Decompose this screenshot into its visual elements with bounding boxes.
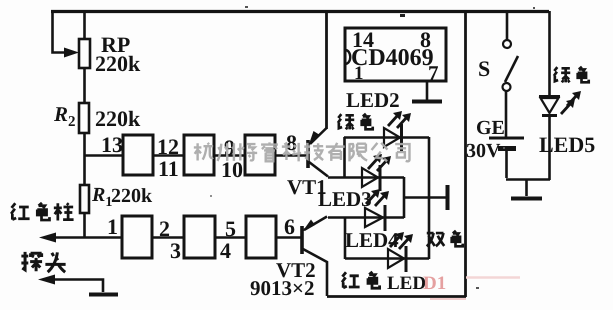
scan speckles (210, 6, 535, 289)
transistor VT2 emitter (304, 217, 327, 231)
svg-text:S: S (478, 56, 490, 81)
wire V2 joining LED3 row to LED1 row (344, 217, 347, 259)
LED5 (539, 91, 581, 116)
svg-text:220k: 220k (95, 51, 141, 76)
potentiometer RP body (79, 39, 90, 68)
svg-text:R2: R2 (53, 102, 76, 130)
transistor VT1 base bar (306, 140, 310, 168)
svg-text:220k: 220k (95, 106, 141, 131)
gate U1f box (246, 216, 276, 258)
wire probe lead (45, 280, 103, 293)
transistor VT1 collector (309, 162, 328, 177)
ground (pin7) (412, 100, 442, 104)
IC U1 CD4069 box (345, 28, 446, 81)
wire row2 input to gates (46, 236, 301, 239)
ground (battery) (511, 180, 542, 199)
label 红色柱 (red probe) (11, 203, 73, 221)
label 绿色 (LED5) (554, 67, 589, 83)
gate U1d box (122, 216, 152, 258)
svg-text:D1: D1 (423, 273, 446, 294)
wire battery to bottom node (505, 151, 508, 178)
wire big box right edge (464, 10, 467, 297)
wire LED3 bottom row (328, 216, 404, 219)
svg-text:1: 1 (107, 214, 118, 239)
wire V1 joining LED2 row to LED3 row (343, 137, 346, 178)
wire pin7 to ground (426, 81, 429, 100)
wire left branch to RP wiper (53, 11, 67, 53)
LED3 lower (365, 205, 385, 231)
wire R1 to node1 (83, 213, 86, 238)
wire R2 to node13 to R1 (83, 133, 86, 185)
battery GE plate + (489, 137, 524, 140)
transistor VT2 base bar (300, 226, 304, 254)
probe arrowhead (38, 275, 55, 285)
ground (dual LED common) (404, 185, 448, 210)
wire bottom right rail (506, 178, 550, 181)
svg-text:6: 6 (284, 214, 295, 239)
svg-text:13: 13 (101, 132, 123, 157)
IC notch (345, 50, 350, 64)
svg-text:R1: R1 (91, 184, 112, 210)
wire RP to R2 (83, 68, 86, 103)
gate U1a box (123, 135, 153, 175)
label 绿色 (LED2) (338, 114, 373, 130)
ground (probe) (89, 293, 118, 297)
resistor R1 body (80, 185, 89, 213)
LED3 upper (362, 154, 391, 191)
label 红色 (red) (342, 272, 380, 288)
wire LED2 row (344, 136, 429, 139)
battery GE plate - (498, 146, 516, 151)
light arrows (LED1) (390, 232, 404, 247)
svg-text:LED3: LED3 (318, 187, 372, 211)
resistor R2 body (79, 103, 89, 133)
gate U1c box (245, 135, 275, 175)
gate U1e box (184, 216, 215, 258)
LED2 (384, 111, 411, 151)
wire big box left edge (325, 10, 328, 129)
svg-text:8: 8 (420, 27, 431, 52)
svg-text:4: 4 (220, 238, 231, 263)
switch S top contact (503, 40, 511, 48)
svg-text:2: 2 (159, 216, 170, 241)
svg-text:7: 7 (428, 61, 439, 85)
wire LED1 row (345, 257, 429, 260)
svg-text:10: 10 (221, 157, 243, 182)
wire V3 dual-led right edge (403, 177, 406, 218)
wire LED5 branch top (548, 11, 551, 96)
wire V4 joining LED2 row to LED1 row (428, 137, 431, 259)
svg-text:9013×2: 9013×2 (250, 276, 314, 300)
wire switch to battery (505, 91, 508, 137)
switch S lever (505, 56, 518, 82)
red probe arrowhead (39, 233, 56, 243)
LED1 (388, 246, 406, 272)
svg-text:LED: LED (387, 273, 426, 294)
label 双色 (dual color) (427, 231, 463, 247)
wire big box bottom edge (327, 295, 466, 298)
svg-text:30V: 30V (466, 140, 501, 162)
svg-text:GE: GE (476, 117, 505, 139)
wire row1 input node to gates (84, 154, 307, 157)
svg-text:220k: 220k (111, 185, 153, 207)
svg-text:LED4: LED4 (345, 228, 399, 252)
switch S bottom contact (503, 83, 511, 91)
switch S stem (506, 12, 509, 40)
svg-text:LED5: LED5 (539, 132, 595, 157)
transistor VT2 collector (303, 249, 327, 296)
wire LED5 branch bottom (548, 115, 551, 180)
wiper arrowhead into RP (64, 48, 79, 58)
wire top supply bus (51, 10, 549, 13)
svg-text:3: 3 (170, 238, 181, 263)
wire main vertical top to RP (83, 11, 86, 39)
gate U1b box (184, 135, 214, 175)
wire LED3 top row (328, 176, 404, 179)
watermark gray company text (194, 142, 410, 161)
svg-text:1: 1 (354, 63, 364, 84)
svg-text:11: 11 (158, 156, 179, 181)
transistor VT1 emitter (310, 128, 327, 144)
svg-text:14: 14 (352, 27, 374, 52)
label 探头 (probe) (21, 252, 65, 272)
light arrows (LED3 lower) (366, 189, 380, 204)
svg-text:LED2: LED2 (346, 88, 400, 112)
watermark pink line (466, 276, 520, 278)
